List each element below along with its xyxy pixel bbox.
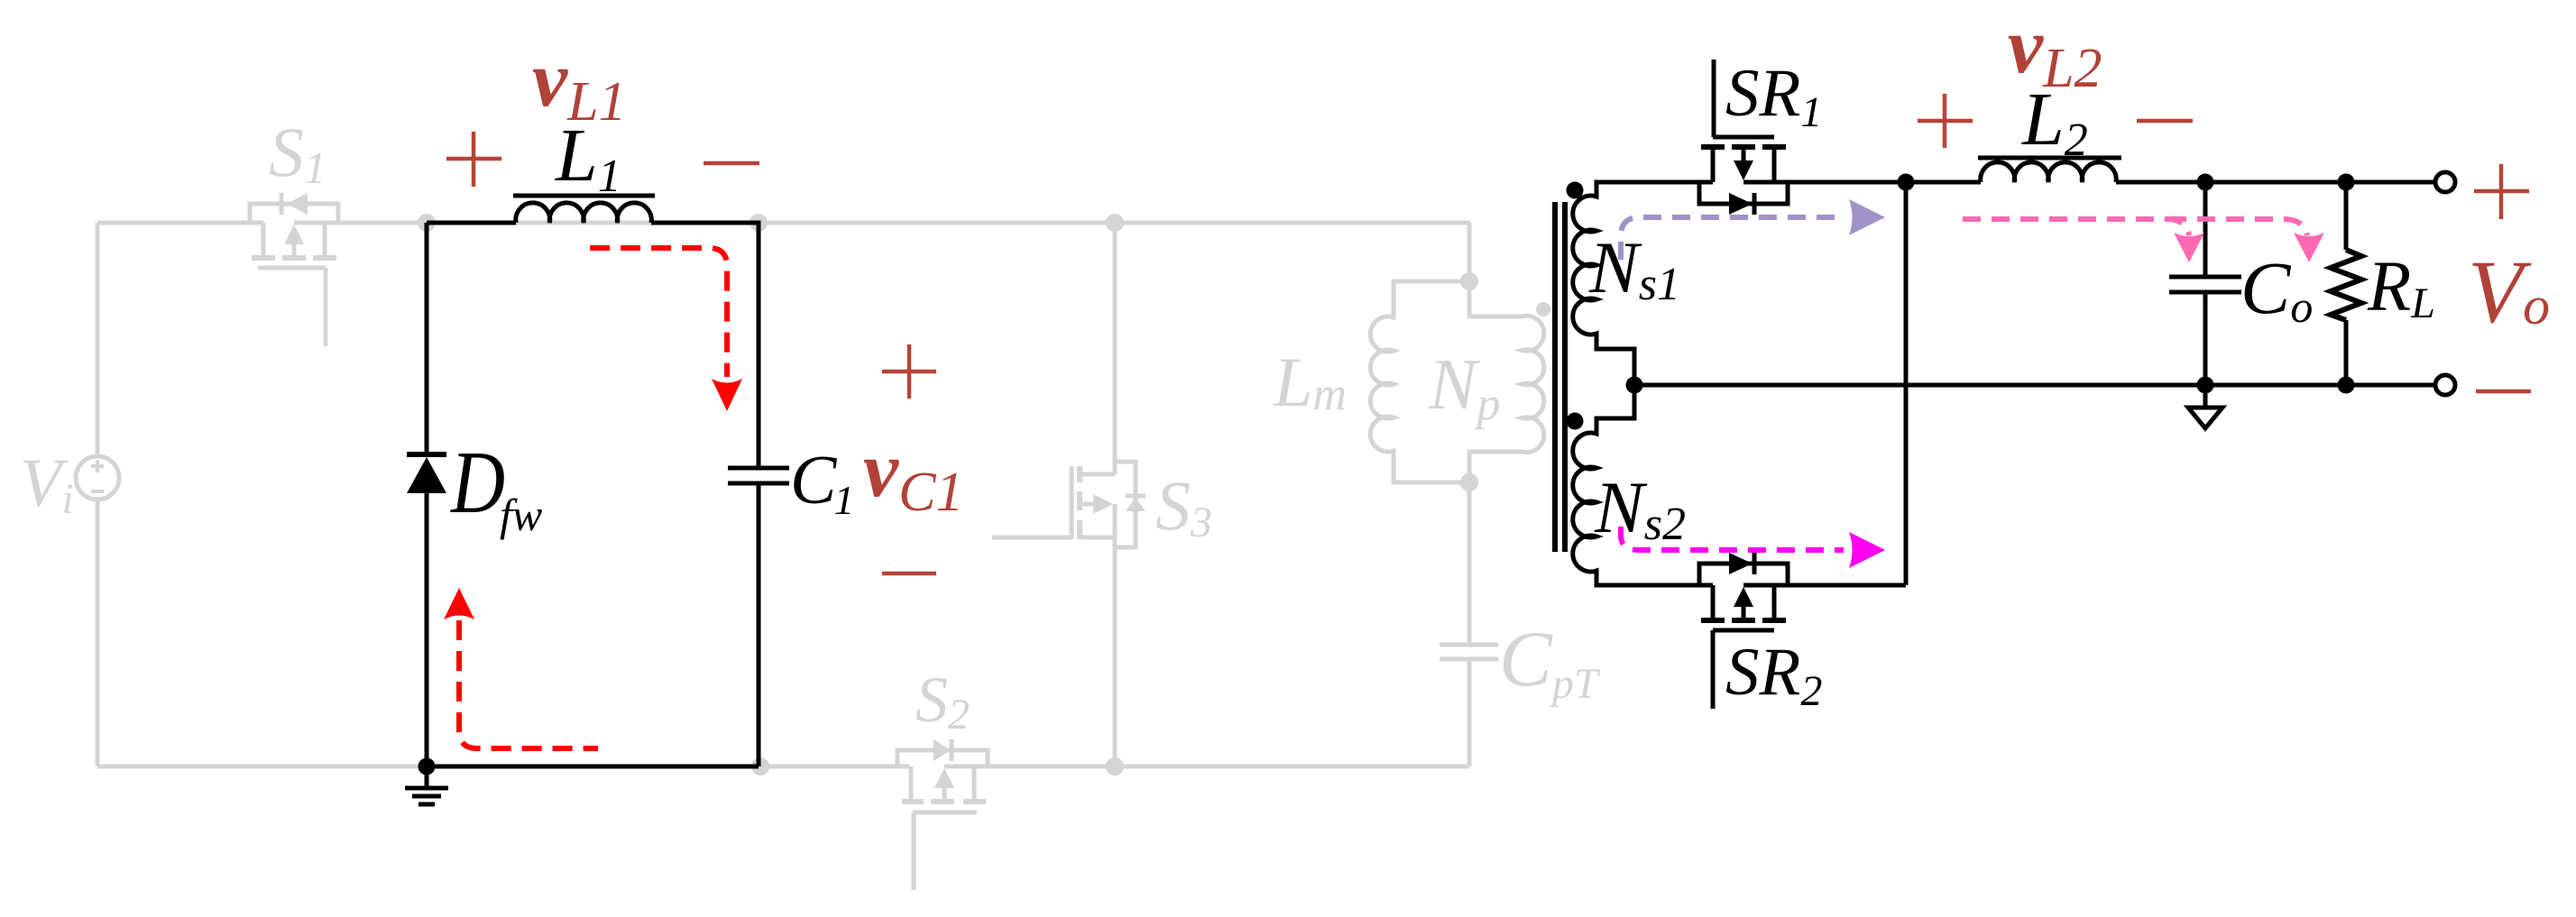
wire: L1 to C1 corner [651,223,759,466]
wire: S3 branch vertical lower [1113,504,1118,766]
svg-text:Vo: Vo [2468,242,2550,342]
svg-text:vL2: vL2 [2008,3,2102,99]
node: junction top rail / S3 branch [1106,214,1124,232]
svg-text:C1: C1 [790,441,854,523]
node: L2/Co junction [2197,174,2214,191]
red arrowhead down at C1 [712,379,742,411]
svg-text:Dfw: Dfw [449,434,542,540]
magenta arrowhead right [1849,532,1885,568]
node: Ns2 polarity dot [1567,413,1584,430]
wire: Dfw branch vertical upper [425,223,429,453]
diode Dfw [407,454,446,493]
capacitor CpT (gray) [1440,645,1498,659]
wire: C1 to bottom rail [757,485,761,766]
wire: top rail gray from S1 source to transformer branch [294,221,1470,225]
wire: CpT to bottom rail [1467,661,1472,766]
wire: right vertical joining SR outputs [1904,182,1909,585]
output terminal - (open circle) [2435,375,2455,395]
node: junction bottom rail / C1 branch [751,757,769,775]
wire: left vertical above Vi [96,223,100,456]
node: junction top rail / Dfw branch [418,214,436,232]
svg-text:Lm: Lm [1273,343,1347,421]
transistor SR2 (sync rectifier MOSFET) [1699,553,1788,709]
wire: bottom rail gray from S2 source to CpT branch [944,765,1469,769]
wire: Dfw branch vertical lower [425,491,429,766]
resistor RL [2331,182,2361,385]
transformer core [1555,202,1565,552]
secondary winding Ns1 [1573,182,1642,385]
svg-text:Np: Np [1428,345,1500,430]
switch S1 (gray MOSFET, horizontal) [250,193,338,346]
voltage source Vi [76,456,119,500]
svg-text:S2: S2 [915,664,970,738]
wire: secondary top rail (Ns1 to SR1 drain) [1642,180,1713,185]
node: bottom-left junction (black) [419,758,436,775]
svg-text:vL1: vL1 [532,36,627,133]
inductor L1 [513,196,655,223]
wire: Lm-Np branch vertical middle to CpT [1467,482,1472,643]
minus sign Vo [2476,390,2531,394]
DARK RED polarity marks [446,94,2531,573]
switch S3 (gray MOSFET, vertical) [992,462,1145,547]
BLACK ACTIVE CIRCUIT (left cell) [427,223,759,766]
secondary winding Ns2 [1573,385,1642,585]
node: center tap junction [1626,377,1643,394]
pink arrowhead down at RL [2294,233,2324,262]
transistor SR1 (sync rectifier MOSFET) [1699,60,1788,215]
wire: bottom rail gray from Vi to S2 drain [97,765,909,769]
svg-text:Co: Co [2240,246,2313,332]
svg-text:Ns1: Ns1 [1588,226,1680,310]
minus sign vL2 [2137,119,2193,124]
svg-text:SR2: SR2 [1725,635,1822,715]
wire: top from node to L1 [427,221,516,225]
plus sign vL2 [1918,94,1973,148]
primary winding Np (gray) [1469,281,1544,482]
node: Co/RL top junction [2338,174,2355,191]
ground (left, at bottom node) [405,766,448,804]
wire: SR1 source to L1 node [1743,180,1981,185]
plus sign vC1 [882,344,936,399]
svg-text:CpT: CpT [1499,616,1601,708]
node: junction Lm/Np top [1460,272,1478,290]
svg-text:RL: RL [2367,248,2435,327]
wire: L2 right to output plus terminal [2116,180,2435,185]
purple arrowhead right [1849,199,1885,235]
svg-text:Ns2: Ns2 [1594,466,1686,550]
wire: magenta current path through SR2 [1621,527,1844,550]
wire: pink output current path to Co [1963,219,2189,235]
plus sign Vo [2474,164,2529,219]
output terminal + (open circle) [2435,172,2455,192]
svg-text:Vi: Vi [20,445,74,523]
svg-text:vC1: vC1 [863,426,963,523]
GRAY PRIMARY-SIDE (inactive) CIRCUIT [97,223,1470,766]
red arrowhead up at Dfw [444,588,474,619]
wire: red current path through L1 into C1 [590,248,727,377]
node: junction top rail / C1 branch [750,214,768,232]
inductor L2 [1978,158,2121,182]
node: Co bottom junction [2197,377,2214,394]
wire: center tap rail to output minus [1634,383,2435,388]
wire: Lm-Np branch vertical top [1467,223,1472,281]
svg-text:S3: S3 [1155,466,1212,546]
minus sign vC1 [882,572,936,576]
node: Np polarity dot [1536,302,1550,316]
wire: bottom black rail [427,765,759,769]
wire: pink output current path to RL [2168,219,2307,235]
wire: red current path from bottom rail up through Dfw [459,620,598,748]
node: RL bottom junction [2338,377,2355,394]
wire: secondary bottom rail (Ns2 to SR2) [1642,583,1713,588]
node: SR1/L2 junction [1898,174,1915,191]
svg-text:S1: S1 [269,113,327,193]
wire: purple current path through SR1 [1621,217,1844,260]
node: junction bottom rail / S3 branch [1106,757,1124,775]
capacitor C1 [728,468,789,483]
node: junction Lm/Np bottom [1460,473,1478,491]
switch S2 (gray MOSFET on bottom rail) [897,739,988,890]
minus sign vL1 [704,161,759,166]
plus sign vL1 [446,132,501,187]
wire: SR2 to right vertical [1743,583,1906,588]
wire: top rail gray from Vi to S1 drain [97,221,263,225]
magnetizing inductance Lm (gray winding) [1370,281,1469,482]
wire: S3 branch vertical upper [1113,223,1118,474]
node: Ns1 polarity dot [1567,182,1584,199]
capacitor Co [2169,182,2241,385]
ground (right, open triangle at output) [2188,385,2222,428]
svg-text:SR1: SR1 [1725,56,1822,136]
pink arrowhead down at Co [2174,233,2204,262]
wire: left vertical below Vi [96,500,100,766]
